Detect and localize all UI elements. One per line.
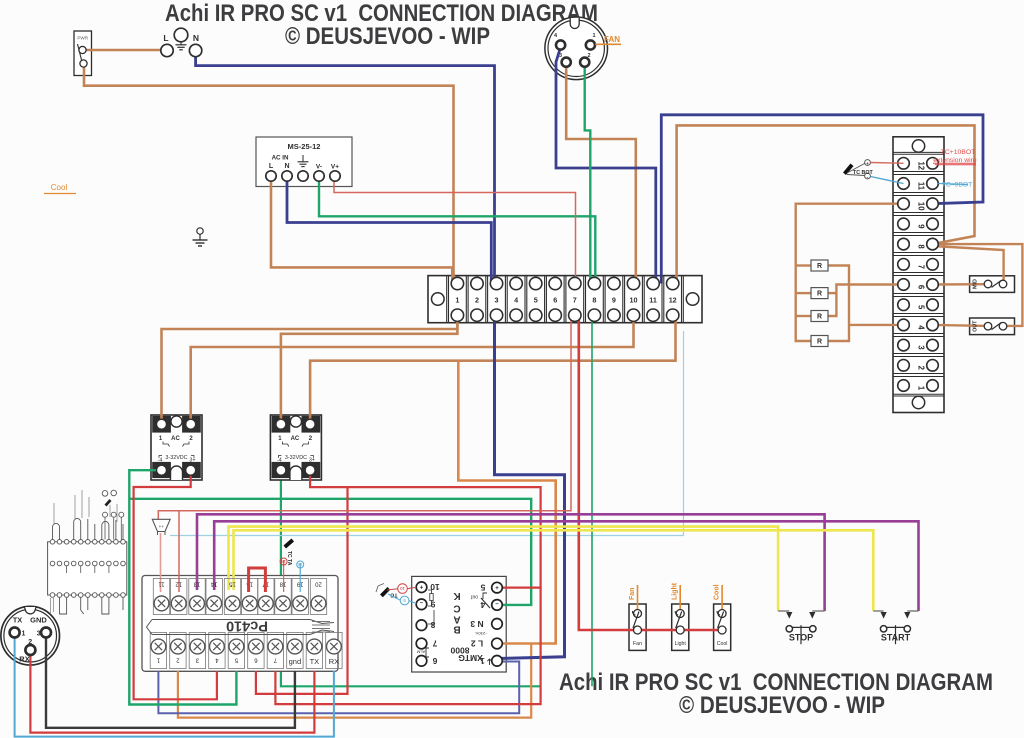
svg-text:STOP: STOP — [789, 633, 813, 643]
svg-text:R: R — [817, 314, 822, 321]
svg-text:MS-25-12: MS-25-12 — [288, 142, 321, 151]
svg-text:2: 2 — [475, 295, 479, 304]
svg-text:XMTG: XMTG — [458, 653, 483, 663]
svg-text:2: 2 — [587, 53, 590, 59]
svg-text:PWR: PWR — [77, 36, 88, 41]
svg-text:B: B — [453, 624, 460, 635]
svg-text:4: 4 — [514, 295, 518, 304]
svg-text:START: START — [881, 633, 911, 643]
svg-text:A: A — [453, 614, 460, 625]
svg-text:7: 7 — [432, 639, 437, 649]
svg-text:14: 14 — [210, 580, 217, 586]
svg-text:Fan: Fan — [633, 641, 642, 647]
svg-text:7: 7 — [573, 295, 577, 304]
svg-text:L: L — [163, 33, 168, 43]
svg-text:13: 13 — [193, 580, 200, 586]
svg-text:TC+10BOT: TC+10BOT — [941, 149, 976, 156]
svg-text:out: out — [470, 594, 478, 600]
svg-text:3: 3 — [37, 631, 41, 638]
svg-text:3+: 3+ — [189, 458, 195, 464]
svg-text:-4: -4 — [277, 458, 282, 464]
svg-text:Pc410: Pc410 — [226, 618, 268, 634]
svg-text:TX: TX — [310, 657, 320, 666]
svg-text:N: N — [284, 163, 289, 170]
svg-text:V-: V- — [316, 164, 322, 171]
svg-text:3-32VDC: 3-32VDC — [285, 455, 307, 461]
svg-text:+: + — [419, 583, 423, 589]
svg-text:RX: RX — [19, 655, 29, 664]
svg-text:Cool: Cool — [714, 584, 721, 600]
svg-text:9: 9 — [612, 295, 616, 304]
svg-text:Cool: Cool — [717, 641, 728, 647]
svg-text:15: 15 — [229, 580, 236, 586]
svg-text:3: 3 — [559, 53, 562, 59]
svg-text:1: 1 — [592, 33, 595, 39]
svg-text:3: 3 — [917, 345, 926, 350]
svg-text:TX: TX — [13, 616, 23, 625]
svg-text:5: 5 — [534, 295, 538, 304]
svg-text:8: 8 — [917, 244, 926, 249]
svg-text:RX: RX — [329, 657, 339, 666]
svg-text:18: 18 — [279, 580, 286, 586]
svg-text:19: 19 — [297, 562, 302, 567]
svg-text:AC: AC — [171, 436, 180, 442]
svg-text:R: R — [817, 291, 822, 298]
svg-text:C: C — [453, 602, 460, 613]
svg-text:2: 2 — [917, 366, 926, 371]
svg-text:+: + — [866, 161, 869, 166]
svg-text:FAN: FAN — [604, 35, 620, 44]
svg-text:6: 6 — [432, 656, 437, 666]
svg-text:5: 5 — [480, 583, 485, 593]
svg-text:1: 1 — [917, 386, 926, 391]
svg-text:7: 7 — [917, 265, 926, 269]
svg-text:ALM: ALM — [417, 650, 425, 655]
svg-text:GND: GND — [30, 616, 47, 625]
svg-text:11: 11 — [649, 295, 657, 304]
svg-text:R: R — [817, 263, 822, 270]
svg-text:3-32VDC: 3-32VDC — [165, 455, 187, 461]
svg-text:L: L — [269, 163, 274, 170]
svg-text:20: 20 — [315, 580, 322, 586]
svg-text:3: 3 — [495, 295, 499, 304]
svg-text:12: 12 — [669, 295, 677, 304]
svg-text:V+: V+ — [331, 164, 339, 171]
svg-text:1: 1 — [22, 631, 26, 638]
svg-text:4: 4 — [917, 325, 926, 330]
svg-text:gnd: gnd — [289, 657, 302, 666]
svg-text:-4: -4 — [158, 458, 163, 464]
svg-text:++: ++ — [159, 524, 165, 529]
svg-text:10: 10 — [400, 586, 406, 591]
svg-text:2: 2 — [28, 639, 32, 646]
svg-text:L 2: L 2 — [471, 639, 483, 649]
svg-text:6: 6 — [553, 295, 557, 304]
svg-text:9: 9 — [917, 224, 926, 229]
svg-text:6: 6 — [917, 285, 926, 290]
svg-text:N: N — [193, 33, 199, 43]
svg-text:Light: Light — [672, 582, 679, 600]
svg-text:+: + — [495, 584, 499, 590]
svg-text:10: 10 — [630, 295, 638, 304]
svg-text:11: 11 — [158, 580, 165, 586]
svg-text:OUT: OUT — [973, 320, 979, 332]
svg-text:~230V-: ~230V- — [474, 631, 487, 636]
svg-text:12: 12 — [175, 580, 182, 586]
svg-text:AC IN: AC IN — [272, 155, 289, 162]
svg-text:3+: 3+ — [309, 458, 315, 464]
svg-text:AC: AC — [291, 436, 300, 442]
svg-text:TC BOT: TC BOT — [853, 170, 873, 176]
svg-text:18: 18 — [281, 559, 286, 564]
svg-text:8: 8 — [592, 295, 596, 304]
svg-text:Cool: Cool — [51, 183, 68, 192]
svg-text:K: K — [453, 590, 461, 601]
svg-text:© DEUSJEVOO - WIP: © DEUSJEVOO - WIP — [679, 692, 885, 719]
svg-text:1: 1 — [455, 295, 459, 304]
svg-text:11: 11 — [917, 182, 926, 191]
svg-text:5: 5 — [917, 305, 926, 310]
svg-text:8: 8 — [430, 620, 435, 630]
svg-text:N 3: N 3 — [470, 619, 484, 629]
svg-text:MID: MID — [973, 279, 979, 289]
svg-text:10: 10 — [917, 202, 926, 211]
svg-text:Fan: Fan — [629, 588, 636, 600]
svg-text:12: 12 — [917, 161, 926, 170]
svg-text:© DEUSJEVOO - WIP: © DEUSJEVOO - WIP — [285, 23, 490, 50]
svg-text:Light: Light — [675, 641, 687, 647]
svg-text:R: R — [817, 339, 822, 346]
